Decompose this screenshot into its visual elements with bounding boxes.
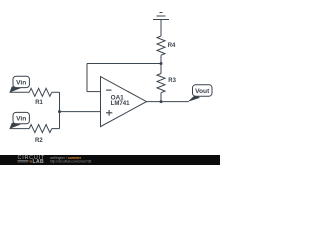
terminal Vin (bottom) [10, 112, 30, 128]
wire Vin2 to R2 [10, 128, 30, 130]
svg-text:http://circuitlab.com/c/cub738: http://circuitlab.com/c/cub738 [50, 159, 92, 163]
wire R1 to vertical [52, 91, 60, 93]
resistor R1 [29, 88, 52, 96]
resistor R3 [157, 64, 165, 102]
wire feedback horizontal [87, 63, 161, 65]
resistor R2 [29, 125, 52, 133]
wire Vin1 to R1 [10, 91, 30, 93]
svg-text:LM741: LM741 [111, 100, 131, 107]
footer bar [0, 155, 220, 165]
node plus junction [58, 110, 61, 113]
svg-text:Vin: Vin [16, 79, 26, 86]
wire feedback vertical [86, 64, 88, 92]
footer logo LAB [18, 159, 44, 165]
svg-text:R2: R2 [35, 138, 43, 144]
svg-text:R3: R3 [168, 78, 176, 84]
wire R4 bottom to feedback node [160, 55, 162, 63]
op-amp OA1 [101, 77, 147, 127]
svg-text:R1: R1 [35, 100, 43, 106]
node feedback junction [160, 62, 163, 65]
ground [153, 13, 169, 37]
svg-text:Vout: Vout [195, 88, 210, 95]
svg-text:«LAB: «LAB [29, 159, 44, 165]
terminal Vout [188, 85, 213, 102]
wire R1-R2 vertical [59, 92, 61, 128]
wire minus input [87, 91, 101, 93]
wire output [147, 101, 189, 103]
svg-text:R4: R4 [168, 43, 176, 49]
node output junction [160, 100, 163, 103]
wire R2 to vertical [52, 128, 60, 130]
wire plus input [60, 111, 101, 113]
resistor R4 [157, 36, 165, 55]
terminal Vin (top) [10, 76, 30, 92]
svg-text:Vin: Vin [16, 116, 26, 123]
